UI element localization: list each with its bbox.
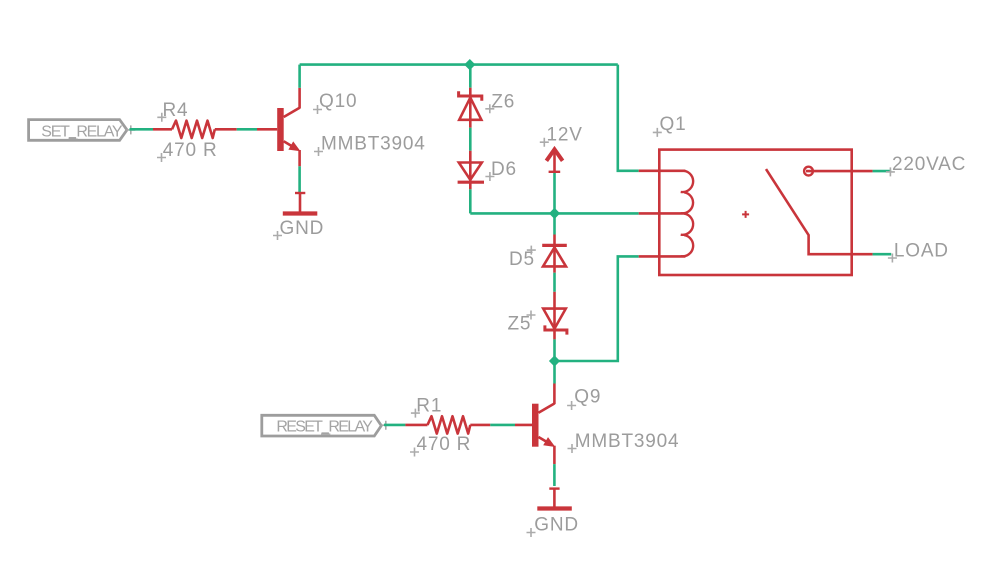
svg-text:SET_RELAY: SET_RELAY	[41, 124, 123, 141]
relay coil pin 2	[639, 212, 686, 215]
node junction Z5 / Q9 / relay	[549, 355, 560, 366]
wire R4 to Q10 base	[237, 128, 257, 131]
wire D5 to Z5	[553, 273, 556, 292]
diode D5	[509, 235, 567, 273]
svg-text:470 R: 470 R	[163, 140, 218, 161]
relay switch blade	[766, 169, 852, 254]
label flag RESET_RELAY	[262, 415, 391, 436]
relay coil pin 3	[639, 255, 686, 258]
svg-text:D6: D6	[491, 159, 517, 180]
supply +12V	[540, 124, 583, 171]
svg-text:GND: GND	[280, 218, 325, 239]
wire D6 to middle bus	[469, 189, 472, 213]
transistor Q9 MMBT3904	[515, 384, 679, 465]
wire Z6 to D6	[469, 128, 472, 151]
wire bus to D5	[553, 213, 556, 234]
wire SET_RELAY to R4	[130, 128, 154, 131]
wire top rail	[300, 63, 618, 66]
wire rail to Z6	[469, 65, 472, 88]
svg-text:Q10: Q10	[319, 91, 357, 112]
svg-text:MMBT3904: MMBT3904	[321, 134, 426, 155]
resistor R1	[405, 396, 490, 457]
svg-text:Z5: Z5	[508, 314, 532, 335]
diode D6	[458, 151, 517, 190]
svg-text:Q9: Q9	[574, 387, 601, 408]
node junction 12V bus	[549, 208, 560, 219]
wire RESET_RELAY to R1	[384, 424, 405, 427]
wire R1 to Q9 base	[490, 424, 515, 427]
wire 220VAC stub	[873, 170, 892, 173]
svg-text:LOAD: LOAD	[894, 241, 949, 262]
wire Z5 to node	[553, 339, 556, 361]
relay coil 1 arcs	[681, 171, 693, 192]
svg-text:R1: R1	[416, 396, 442, 417]
relay coil 2 arcs	[681, 214, 693, 235]
resistor R4	[153, 100, 237, 162]
ground GND (Q10)	[273, 192, 324, 240]
svg-text:Q1: Q1	[660, 114, 687, 135]
wire middle bus to relay pin2	[470, 212, 638, 215]
svg-text:220VAC: 220VAC	[892, 154, 966, 175]
wire Q10 collector to rail	[298, 65, 301, 88]
relay body rectangle	[659, 150, 851, 275]
relay contact line to 220VAC pin	[806, 170, 873, 173]
wire Q9 emitter to GND	[553, 464, 556, 486]
svg-text:MMBT3904: MMBT3904	[575, 431, 680, 452]
relay LOAD pin	[852, 253, 873, 256]
transistor Q10 MMBT3904	[257, 88, 426, 167]
wire node to relay pin3	[555, 256, 639, 361]
svg-text:Z6: Z6	[491, 92, 515, 113]
relay coil pin 1	[639, 170, 686, 173]
svg-text:R4: R4	[163, 100, 189, 121]
ground GND (Q9)	[527, 488, 579, 537]
label flag SET_RELAY	[29, 120, 136, 141]
wire 12V to bus	[553, 173, 556, 213]
node junction rail / Z6	[464, 59, 475, 70]
svg-text:12V: 12V	[547, 124, 583, 145]
svg-text:470 R: 470 R	[417, 434, 472, 455]
svg-text:GND: GND	[534, 515, 579, 536]
relay contact circle	[804, 167, 813, 176]
zener diode Z6	[459, 88, 515, 128]
zener diode Z5	[508, 292, 567, 340]
wire LOAD stub	[873, 253, 892, 256]
wire rail to relay (vertical drop)	[618, 65, 639, 171]
wire Q10 emitter to GND	[298, 166, 301, 192]
relay Q1	[639, 114, 873, 275]
relay origin cross	[742, 211, 749, 218]
wire node to Q9 collector	[553, 361, 556, 384]
